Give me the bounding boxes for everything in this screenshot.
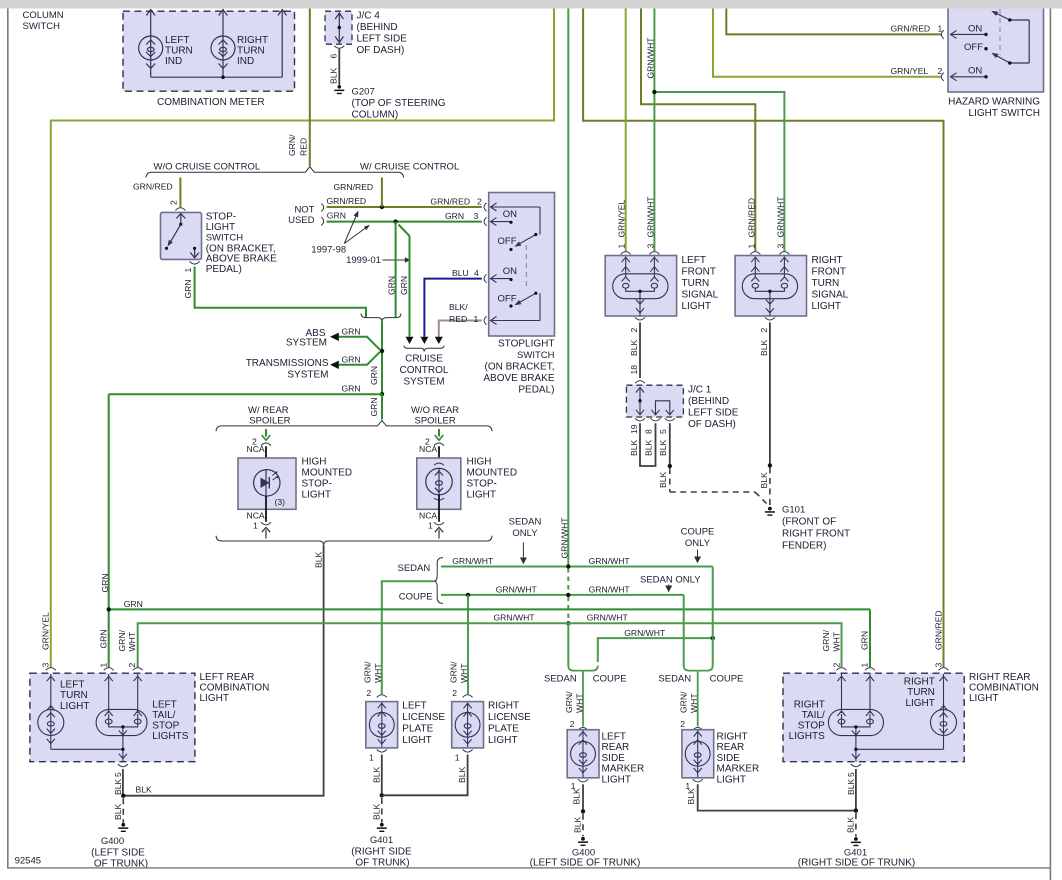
wire GRN/WHT branch to right front pin3 [654,92,784,251]
svg-text:2: 2 [477,197,482,207]
svg-text:CRUISE: CRUISE [405,354,443,365]
svg-text:GRN/WHT: GRN/WHT [645,37,655,79]
svg-text:BLK: BLK [846,778,856,795]
wire BLK left license [381,755,383,796]
svg-text:GRN/: GRN/ [679,691,689,713]
svg-text:BLK: BLK [629,439,639,456]
right rear side marker light box [682,730,714,778]
svg-text:LIGHT: LIGHT [905,698,934,709]
svg-text:(TOP OF STEERING: (TOP OF STEERING [352,98,446,109]
svg-text:IND: IND [237,56,254,67]
svg-text:COUPE: COUPE [681,527,715,538]
stoplight switch interior [491,203,541,325]
svg-text:GRN/: GRN/ [117,629,127,651]
svg-text:ONLY: ONLY [685,538,711,549]
svg-text:WHT: WHT [689,693,699,713]
connector bump stoplight switch w/o top [175,208,185,211]
lamp symbol right high stoplight [426,463,452,500]
svg-text:STOPLIGHT: STOPLIGHT [498,339,555,350]
svg-text:FENDER): FENDER) [782,541,826,552]
svg-text:STOP-: STOP- [206,212,236,223]
svg-text:ON: ON [968,66,982,77]
svg-text:SEDAN: SEDAN [398,563,431,574]
svg-text:BLK: BLK [658,471,668,488]
hazard mechanical link [999,9,1001,55]
svg-text:(RIGHT SIDE OF TRUNK): (RIGHT SIDE OF TRUNK) [798,857,915,868]
svg-text:1: 1 [428,521,433,531]
svg-text:1: 1 [746,244,756,249]
high mounted stop-light (w/ rear spoiler) box [238,458,296,509]
wire1 GRN/WHT sedan row [441,566,713,568]
node coupe to right license [466,593,470,597]
LED lamp symbol [254,470,280,496]
lamp RIGHT TURN IND [211,10,235,78]
svg-text:GRN/RED: GRN/RED [746,198,756,238]
svg-text:1: 1 [369,753,374,763]
svg-text:5: 5 [113,772,123,777]
svg-text:SWITCH: SWITCH [23,21,61,32]
svg-text:OF TRUNK): OF TRUNK) [355,857,409,868]
svg-text:GRN: GRN [445,211,464,221]
connector bump high stop left [261,443,271,446]
svg-text:GRN: GRN [387,276,397,295]
svg-text:GRN/WHT: GRN/WHT [560,517,570,559]
riser below wireB to left marker merge [567,623,569,666]
svg-text:OFF: OFF [498,294,517,305]
svg-text:LEFT: LEFT [60,680,84,691]
wire GRN/RED cruise feed [309,9,311,167]
connector bump below J/C4 [334,46,344,49]
svg-text:BLK: BLK [371,766,381,783]
arrow up to bracket left [262,527,270,532]
svg-text:COMBINATION METER: COMBINATION METER [157,97,265,108]
svg-text:8: 8 [644,429,654,434]
stop-light switch (w/o cruise) [161,212,202,259]
wire BLK left front to J/C1 [639,322,641,378]
svg-text:BLU: BLU [452,268,469,278]
svg-text:GRN/YEL: GRN/YEL [40,612,50,650]
bracket high stoplight merge [216,536,492,546]
svg-text:RIGHT: RIGHT [237,35,268,46]
svg-text:COLUMN: COLUMN [23,10,64,21]
wire GRN/WHT long row [138,623,842,667]
wire GRN pin3 node down to merge [395,222,397,318]
wire GRN diagonal from pin3 node to cruise arrow [399,225,410,337]
page chrome top strip [0,0,1062,9]
wire BLK U pins 19-8 [640,423,656,466]
svg-text:SIDE: SIDE [602,753,626,764]
svg-text:BLK: BLK [113,803,123,820]
left turn light lamp [38,674,64,749]
svg-text:SEDAN: SEDAN [658,673,691,684]
svg-text:LIGHT: LIGHT [682,301,711,312]
wire GRN/RED drop to w/o cruise stoplight switch [179,178,181,208]
svg-text:5: 5 [846,772,856,777]
svg-text:GRN/WHT: GRN/WHT [496,584,538,594]
wire GRN/YEL to hazard pin2 [713,9,942,77]
svg-text:LICENSE: LICENSE [402,712,445,723]
left rear combination light box [30,673,195,762]
svg-text:(3): (3) [275,497,286,507]
svg-text:LIGHT: LIGHT [969,693,998,704]
svg-text:SIDE: SIDE [717,753,741,764]
svg-text:LIGHT: LIGHT [60,701,89,712]
wire GRN trunk to spoiler bracket [381,394,383,419]
svg-text:G207: G207 [352,87,375,98]
svg-text:OF DASH): OF DASH) [357,45,405,56]
svg-text:BLK: BLK [328,67,338,84]
svg-text:MOUNTED: MOUNTED [467,468,518,479]
svg-text:GRN: GRN [399,276,409,295]
svg-text:WHT: WHT [574,693,584,713]
svg-text:PLATE: PLATE [488,724,519,735]
svg-text:OFF: OFF [964,42,983,53]
svg-text:NCA: NCA [247,511,265,521]
svg-text:GRN/: GRN/ [287,134,297,156]
connector bump below right high box [434,522,444,525]
svg-text:SEDAN: SEDAN [509,517,542,528]
svg-text:2: 2 [759,328,769,333]
wire BLK/RED 1 [439,321,482,337]
wire GRN trunk [381,322,383,395]
svg-text:PEDAL): PEDAL) [206,264,242,275]
svg-text:SYSTEM: SYSTEM [287,370,328,381]
svg-text:2: 2 [831,663,841,668]
svg-text:GRN/YEL: GRN/YEL [891,66,929,76]
svg-text:STOP-: STOP- [302,479,332,490]
connector bump left rear bottom [118,764,128,767]
svg-text:1: 1 [253,521,258,531]
arrow to ABS SYSTEM [339,337,381,350]
svg-text:3: 3 [775,244,785,249]
junction block J/C 1 [626,385,683,417]
svg-text:GRN/RED: GRN/RED [133,182,173,192]
svg-text:ONLY: ONLY [512,528,538,539]
svg-text:TURN: TURN [237,46,265,57]
svg-text:BLK: BLK [573,816,583,833]
connector bump left front bottom [635,317,645,320]
hazard switch blades [993,12,1030,64]
svg-text:TURN: TURN [812,278,840,289]
node meter junction [221,75,225,79]
svg-text:3: 3 [645,244,655,249]
bracket not-used row2 [321,217,324,226]
svg-text:(LEFT SIDE: (LEFT SIDE [91,847,145,858]
svg-text:HIGH: HIGH [467,457,492,468]
wire BLK left marker to G400 [582,784,584,811]
wire BLK right front to G101 [769,322,771,465]
merge brace sedan/coupe [434,558,443,604]
lamp LEFT TURN IND [139,10,163,78]
svg-text:ABOVE BRAKE: ABOVE BRAKE [206,254,277,265]
svg-text:GRN: GRN [124,599,143,609]
connector bumps J/C1 bottom [635,418,645,421]
svg-text:COLUMN): COLUMN) [352,110,399,121]
svg-text:RIGHT: RIGHT [488,701,519,712]
wire GRN/WHT coupe cross link [598,638,713,662]
svg-text:6: 6 [328,54,338,59]
svg-text:2: 2 [570,719,575,729]
wire GRN 3 row [327,221,482,223]
svg-text:(BEHIND: (BEHIND [357,22,398,33]
wire BLK pin 5 [669,423,671,466]
svg-text:BLK: BLK [686,788,696,805]
svg-text:GRN/WHT: GRN/WHT [645,196,655,238]
bracket not-used row1 [321,204,324,212]
svg-text:LIGHT: LIGHT [812,301,841,312]
svg-text:1: 1 [455,753,460,763]
wire meter common [151,10,287,78]
svg-text:WHT: WHT [459,663,469,683]
svg-text:NCA: NCA [247,444,265,454]
svg-text:ABOVE BRAKE: ABOVE BRAKE [483,373,554,384]
svg-text:2: 2 [127,663,137,668]
svg-text:PEDAL): PEDAL) [518,385,554,396]
wire below right high box [438,495,440,522]
wire BLK right marker to G401 right [698,784,856,810]
svg-text:LEFT: LEFT [682,255,706,266]
svg-text:BLK: BLK [371,803,381,820]
svg-text:J/C 1: J/C 1 [688,385,712,396]
svg-text:1: 1 [474,314,479,324]
wire GRN/YEL left loop to rear left turn [51,9,554,668]
wire2 drop to right marker [683,595,685,666]
wire BLK right license joins [382,755,468,796]
svg-text:COUPE: COUPE [710,673,744,684]
wire GRN/YEL to left front pin1 [625,9,627,252]
svg-text:LIGHT SWITCH: LIGHT SWITCH [969,108,1040,119]
stoplight switch (w/ cruise) box [489,193,555,337]
svg-text:WHT: WHT [373,663,383,683]
wire GRN arrow left branch [265,429,267,437]
svg-text:MARKER: MARKER [602,764,645,775]
svg-text:LIGHT: LIGHT [200,693,229,704]
hazard pin2 arrow [951,73,987,81]
combination meter box [123,11,295,91]
svg-text:IND: IND [165,56,182,67]
svg-text:SPOILER: SPOILER [249,415,290,426]
svg-text:REAR: REAR [602,742,630,753]
svg-text:HIGH: HIGH [302,457,327,468]
svg-text:1: 1 [617,244,627,249]
svg-text:ON: ON [503,209,517,220]
svg-text:SEDAN ONLY: SEDAN ONLY [640,575,701,586]
ground G400 center [581,837,585,841]
wire BLK dashed to G101 [670,468,770,507]
ground G401 center-left [381,798,383,823]
svg-text:LEFT: LEFT [152,700,176,711]
svg-text:2: 2 [452,688,457,698]
svg-text:SYSTEM: SYSTEM [286,338,327,349]
svg-text:2: 2 [168,200,178,205]
svg-text:NOT: NOT [294,205,314,216]
svg-text:BLK: BLK [571,788,581,805]
arrow to TRANSMISSIONS SYSTEM [339,352,381,365]
svg-text:W/O CRUISE CONTROL: W/O CRUISE CONTROL [154,162,261,173]
svg-text:GRN: GRN [369,397,379,416]
svg-text:GRN: GRN [342,327,361,337]
wire2 GRN/WHT coupe row [441,594,684,596]
svg-text:LIGHT: LIGHT [467,490,496,501]
svg-text:USED: USED [288,215,315,226]
svg-text:TURN: TURN [165,46,193,57]
svg-text:W/ CRUISE CONTROL: W/ CRUISE CONTROL [360,162,459,173]
svg-text:SIGNAL: SIGNAL [812,290,849,301]
cruise control system arrows [406,337,414,344]
svg-text:4: 4 [474,268,479,278]
svg-text:GRN: GRN [342,384,361,394]
svg-text:LIGHT: LIGHT [717,774,746,785]
left front turn signal light box [605,256,676,317]
svg-text:TURN: TURN [60,690,88,701]
svg-text:NCA: NCA [419,511,437,521]
connector bump high stop right [434,443,444,446]
svg-text:COMBINATION: COMBINATION [969,683,1039,694]
svg-text:GRN/WHT: GRN/WHT [624,628,666,638]
svg-text:LIGHT: LIGHT [302,490,331,501]
wire GRN left riser down [108,394,110,667]
svg-text:GRN/YEL: GRN/YEL [617,200,627,238]
merge left marker [568,666,598,727]
svg-text:GRN/: GRN/ [449,661,459,683]
svg-text:TURN: TURN [907,687,935,698]
svg-text:GRN/RED: GRN/RED [327,196,367,206]
svg-text:NCA: NCA [419,444,437,454]
svg-text:1: 1 [859,663,869,668]
svg-text:GRN: GRN [100,573,110,592]
svg-text:FRONT: FRONT [682,267,716,278]
wire GRN/RED 2 row [327,206,482,208]
svg-text:(BEHIND: (BEHIND [688,396,729,407]
wire GRN/WHT merge to left license [382,581,434,694]
svg-text:GRN/WHT: GRN/WHT [775,196,785,238]
svg-text:5: 5 [658,429,668,434]
svg-text:STOP: STOP [798,721,825,732]
svg-text:LEFT: LEFT [402,701,426,712]
svg-text:18: 18 [629,365,639,375]
svg-text:2: 2 [367,688,372,698]
svg-text:LICENSE: LICENSE [488,712,531,723]
svg-text:WHT: WHT [831,631,841,651]
page right border [1050,9,1052,880]
wire GRN/RED main to right rear turn [583,9,943,668]
wire BLK left rear to G400 [122,769,124,796]
svg-text:GRN: GRN [859,631,869,650]
page bottom border [7,867,1051,868]
svg-text:LIGHTS: LIGHTS [152,731,188,742]
svg-text:LEFT SIDE: LEFT SIDE [357,33,408,44]
svg-text:G400: G400 [101,836,124,847]
svg-text:WHT: WHT [127,631,137,651]
svg-text:GRN/RED: GRN/RED [933,610,943,650]
merge right marker [684,666,713,727]
svg-text:BLK: BLK [658,439,668,456]
wire through left high box [265,496,267,522]
svg-text:92545: 92545 [15,856,41,867]
connector bump below left high box [261,522,271,525]
svg-text:(FRONT OF: (FRONT OF [782,517,836,528]
svg-text:ON: ON [503,266,517,277]
svg-text:GRN/WHT: GRN/WHT [589,556,631,566]
svg-text:SWITCH: SWITCH [517,350,555,361]
wire GRN/RED to hazard pin1 [726,9,941,35]
svg-text:OF DASH): OF DASH) [688,419,736,430]
svg-text:HAZARD WARNING: HAZARD WARNING [948,97,1040,108]
wire BLK 6 to G207 [338,49,340,85]
svg-text:RED: RED [449,314,467,324]
svg-text:G101: G101 [782,505,805,516]
svg-text:RIGHT: RIGHT [717,732,748,743]
ground G401 right [855,813,857,837]
svg-text:BLK: BLK [644,439,654,456]
connector bump hazard pin1 [941,30,944,38]
svg-text:MARKER: MARKER [717,764,760,775]
svg-text:3: 3 [474,211,479,221]
svg-text:MOUNTED: MOUNTED [302,468,353,479]
svg-text:TRANSMISSIONS: TRANSMISSIONS [246,358,329,369]
svg-text:LIGHT: LIGHT [402,735,431,746]
svg-text:GRN: GRN [183,279,193,298]
svg-text:FRONT: FRONT [812,267,846,278]
svg-text:19: 19 [629,424,639,434]
svg-text:J/C 4: J/C 4 [357,10,381,21]
svg-text:LEFT SIDE: LEFT SIDE [688,408,739,419]
wire GRN/WHT riser (upper solid part) [567,9,569,567]
left rear side marker light box [567,730,599,778]
svg-text:2: 2 [680,719,685,729]
wire GRN/RED drop from bracket to row [381,178,383,208]
svg-text:STOP: STOP [152,721,179,732]
svg-text:LEFT: LEFT [165,35,189,46]
svg-text:SEDAN: SEDAN [544,673,577,684]
wire GRN long tail/stop feed [109,608,870,610]
node GRN/WHT split [652,90,656,94]
connector bumps stoplight switch w/ cruise [484,203,487,325]
svg-text:LIGHT: LIGHT [602,774,631,785]
svg-text:COUPE: COUPE [399,591,433,602]
svg-text:RIGHT FRONT: RIGHT FRONT [782,529,850,540]
svg-text:GRN/: GRN/ [564,691,574,713]
svg-text:RED: RED [299,138,309,156]
svg-text:TAIL/: TAIL/ [152,710,175,721]
wire into right high stoplight [438,446,440,470]
connector bumps right front [750,252,760,255]
right rear combination light box [783,673,964,762]
junction block J/C 4 [325,11,352,44]
svg-text:LIGHTS: LIGHTS [789,731,825,742]
svg-text:TAIL/: TAIL/ [802,710,825,721]
svg-text:BLK: BLK [759,472,769,489]
right turn light lamp [931,674,957,749]
svg-text:OFF: OFF [498,236,517,247]
svg-text:RIGHT: RIGHT [812,255,843,266]
svg-text:BLK: BLK [457,766,467,783]
svg-text:SPOILER: SPOILER [415,415,456,426]
svg-text:CONTROL: CONTROL [400,365,449,376]
svg-text:GRN/WHT: GRN/WHT [494,613,536,623]
wire BLK from high stoplights [123,545,323,795]
svg-text:BLK: BLK [136,785,153,795]
ground G101 [768,507,772,511]
svg-text:GRN/WHT: GRN/WHT [587,613,629,623]
svg-text:COMBINATION: COMBINATION [200,683,270,694]
svg-text:(LEFT SIDE OF TRUNK): (LEFT SIDE OF TRUNK) [530,857,641,868]
connector bump right front bottom [765,317,775,320]
svg-text:1: 1 [98,663,108,668]
svg-text:LIGHT: LIGHT [488,735,517,746]
connector bumps left front [621,252,631,255]
bracket rear spoiler options [216,421,492,432]
